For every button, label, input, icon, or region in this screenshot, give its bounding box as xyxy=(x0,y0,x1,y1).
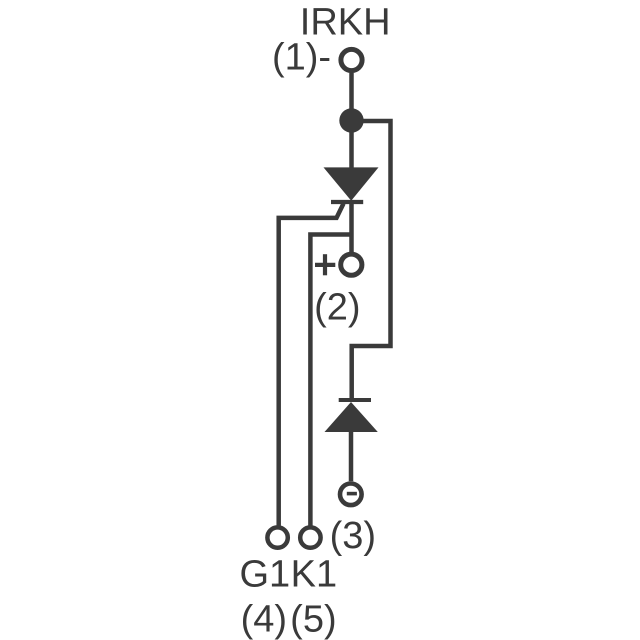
wire thyristor cathode to terminal 2 xyxy=(349,202,354,252)
svg-text:G1: G1 xyxy=(239,554,290,596)
svg-text:(4): (4) xyxy=(241,599,287,640)
wire anode from terminal 1 to thyristor xyxy=(349,73,354,168)
terminal G1 xyxy=(267,527,287,547)
terminal (3) xyxy=(340,484,362,506)
diode cathode bar xyxy=(339,398,371,402)
thyristor cathode bar xyxy=(331,200,363,204)
wire gate lead to G1 xyxy=(279,204,344,526)
plus sign xyxy=(315,254,335,275)
wire diode anode to terminal 3 xyxy=(349,432,354,481)
thyristor SCR triangle xyxy=(324,167,379,200)
terminal (2) xyxy=(341,254,362,275)
svg-text:(2): (2) xyxy=(314,287,360,329)
wire branch right from junction to diode xyxy=(352,121,391,402)
junction node xyxy=(339,108,363,132)
svg-text:K1: K1 xyxy=(291,554,337,596)
svg-text:(3): (3) xyxy=(330,515,376,557)
wire cathode tap to K1 xyxy=(310,235,351,526)
minus sign inside terminal 3 xyxy=(347,492,357,496)
diode triangle xyxy=(325,402,378,432)
svg-text:(1)-: (1)- xyxy=(272,36,331,78)
terminal K1 xyxy=(300,527,320,547)
svg-text:(5): (5) xyxy=(290,599,336,640)
terminal (1) xyxy=(341,49,362,70)
